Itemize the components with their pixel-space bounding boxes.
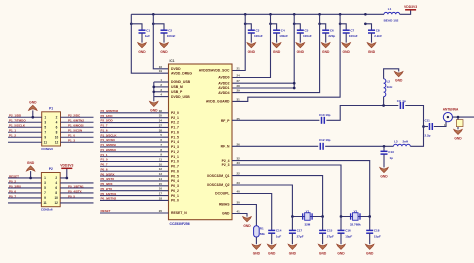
svg-text:AVDD1: AVDD1 <box>218 86 229 90</box>
svg-text:4: 4 <box>55 181 57 185</box>
svg-text:2.2nF: 2.2nF <box>374 34 382 38</box>
svg-text:P1_5/SCLK: P1_5/SCLK <box>9 124 26 128</box>
svg-text:AVDD_DREG: AVDD_DREG <box>171 71 192 75</box>
svg-text:C1: C1 <box>146 28 150 32</box>
svg-text:GND: GND <box>366 251 374 255</box>
svg-text:27pF: 27pF <box>327 234 334 238</box>
svg-text:P0_3: P0_3 <box>171 184 179 188</box>
svg-text:5: 5 <box>44 186 46 190</box>
svg-text:8: 8 <box>55 191 57 195</box>
svg-text:P1_5: P1_5 <box>171 135 179 139</box>
svg-text:C8: C8 <box>376 28 380 32</box>
svg-text:20: 20 <box>159 209 163 213</box>
svg-text:P2_1: P2_1 <box>171 116 179 120</box>
svg-text:9: 9 <box>44 135 46 139</box>
svg-text:P0_6: P0_6 <box>171 169 179 173</box>
svg-text:18: 18 <box>159 196 163 200</box>
svg-text:USB_M: USB_M <box>171 85 183 89</box>
svg-text:GND: GND <box>297 50 305 54</box>
svg-text:6: 6 <box>56 125 58 129</box>
svg-text:Y1: Y1 <box>306 209 310 213</box>
svg-text:1uF: 1uF <box>145 34 151 38</box>
svg-text:P1_2: P1_2 <box>171 150 179 154</box>
svg-text:C16: C16 <box>345 229 351 233</box>
svg-text:L3: L3 <box>394 140 398 144</box>
svg-text:2: 2 <box>56 115 58 119</box>
svg-text:P1_2/MISO: P1_2/MISO <box>101 148 117 152</box>
svg-text:1uF: 1uF <box>276 234 282 238</box>
svg-text:P1_2: P1_2 <box>9 134 16 138</box>
svg-text:P1_1: P1_1 <box>9 129 16 133</box>
svg-text:DCOUPL: DCOUPL <box>215 192 229 196</box>
svg-text:P0_4: P0_4 <box>171 179 179 183</box>
svg-text:26: 26 <box>237 142 241 146</box>
svg-text:8: 8 <box>56 130 58 134</box>
svg-text:P1_6: P1_6 <box>101 128 108 132</box>
svg-text:P0_7: P0_7 <box>171 165 179 169</box>
svg-text:P0_2/TX: P0_2/TX <box>101 187 113 191</box>
svg-text:100nF: 100nF <box>349 34 358 38</box>
svg-text:GND: GND <box>150 109 158 113</box>
svg-text:24: 24 <box>237 74 241 78</box>
svg-text:36: 36 <box>159 109 163 113</box>
svg-text:P0_4/STX: P0_4/STX <box>101 177 115 181</box>
svg-text:P1_0: P1_0 <box>68 134 75 138</box>
svg-text:ANTENNA: ANTENNA <box>443 107 459 111</box>
svg-text:P1: P1 <box>49 106 53 110</box>
svg-text:USB_P: USB_P <box>171 90 183 94</box>
svg-text:VDD3V3: VDD3V3 <box>404 5 417 9</box>
svg-text:C7: C7 <box>350 28 354 32</box>
svg-text:DVDD: DVDD <box>171 67 181 71</box>
svg-text:GND: GND <box>248 50 256 54</box>
svg-text:Y2: Y2 <box>353 209 357 213</box>
svg-text:AVDD0: AVDD0 <box>218 76 229 80</box>
svg-text:CON2x6: CON2x6 <box>41 208 53 212</box>
svg-text:CC2530F256: CC2530F256 <box>170 222 190 226</box>
svg-text:3: 3 <box>44 120 46 124</box>
svg-text:12: 12 <box>159 167 163 171</box>
svg-text:100nF: 100nF <box>279 34 288 38</box>
svg-text:23: 23 <box>237 181 241 185</box>
svg-text:C13: C13 <box>388 150 394 154</box>
svg-text:7: 7 <box>44 130 46 134</box>
svg-text:13: 13 <box>159 172 163 176</box>
svg-text:P1_4/CSN: P1_4/CSN <box>101 138 115 142</box>
svg-text:RESET_N: RESET_N <box>171 211 187 215</box>
svg-text:P0_6: P0_6 <box>9 189 16 193</box>
svg-text:C12 10p: C12 10p <box>319 138 331 142</box>
svg-text:GND: GND <box>454 137 462 141</box>
svg-text:P0_5/SRX: P0_5/SRX <box>101 172 115 176</box>
svg-text:CON2x6: CON2x6 <box>41 147 53 151</box>
svg-text:P1_5/CSN: P1_5/CSN <box>68 129 82 133</box>
svg-text:22: 22 <box>237 172 241 176</box>
svg-text:P1_3/MOSI: P1_3/MOSI <box>101 143 117 147</box>
svg-text:P0_0/BTN2: P0_0/BTN2 <box>101 197 117 201</box>
svg-text:32.768k: 32.768k <box>350 223 361 227</box>
svg-text:31: 31 <box>237 97 241 101</box>
svg-text:P0_1/BTN1: P0_1/BTN1 <box>101 192 117 196</box>
svg-text:P2_3: P2_3 <box>222 163 230 167</box>
svg-text:GND: GND <box>368 50 376 54</box>
svg-text:GND: GND <box>289 251 297 255</box>
svg-text:P1_1: P1_1 <box>171 155 179 159</box>
svg-text:1p: 1p <box>390 156 394 160</box>
svg-text:220p: 220p <box>328 34 335 38</box>
svg-text:38: 38 <box>159 128 163 132</box>
svg-text:11: 11 <box>159 158 162 162</box>
svg-text:P2_2/DD: P2_2/DD <box>101 119 114 123</box>
svg-text:P0_5: P0_5 <box>68 194 75 198</box>
svg-text:P1_7: P1_7 <box>101 124 108 128</box>
svg-text:P0_2: P0_2 <box>171 189 179 193</box>
svg-text:R1: R1 <box>260 226 264 230</box>
svg-text:4: 4 <box>56 120 58 124</box>
svg-text:2nH: 2nH <box>387 85 393 89</box>
svg-text:2.2p: 2.2p <box>425 134 431 138</box>
svg-text:17: 17 <box>159 192 163 196</box>
svg-text:34: 34 <box>159 119 163 123</box>
svg-text:GND: GND <box>29 100 37 104</box>
svg-text:P0_2: P0_2 <box>9 179 16 183</box>
svg-text:P0_6: P0_6 <box>101 167 108 171</box>
svg-text:GND: GND <box>273 50 281 54</box>
svg-text:P2_1/DD: P2_1/DD <box>9 114 22 118</box>
svg-text:L1: L1 <box>388 7 392 11</box>
svg-text:10: 10 <box>54 196 58 200</box>
svg-text:28: 28 <box>237 84 241 88</box>
svg-text:19: 19 <box>159 69 163 73</box>
svg-text:RF_N: RF_N <box>221 145 230 149</box>
svg-text:BEAD 102: BEAD 102 <box>384 19 399 23</box>
svg-text:P1_0: P1_0 <box>101 158 108 162</box>
svg-text:P0_7: P0_7 <box>101 163 108 167</box>
svg-text:IC1: IC1 <box>170 59 175 63</box>
svg-text:C15: C15 <box>327 229 333 233</box>
svg-text:RF_P: RF_P <box>221 119 230 123</box>
svg-text:32: 32 <box>237 157 241 161</box>
svg-text:P2_2: P2_2 <box>171 121 179 125</box>
svg-text:P1_4: P1_4 <box>171 140 179 144</box>
svg-text:GND: GND <box>322 50 330 54</box>
svg-text:14: 14 <box>159 177 163 181</box>
svg-text:XOSC32M_Q2: XOSC32M_Q2 <box>207 183 230 187</box>
svg-text:6: 6 <box>55 186 57 190</box>
svg-text:15pF: 15pF <box>345 234 352 238</box>
svg-text:P2_0: P2_0 <box>171 111 179 115</box>
svg-text:P1_7: P1_7 <box>171 126 179 130</box>
svg-text:P2: P2 <box>49 167 53 171</box>
svg-text:C2: C2 <box>168 28 172 32</box>
svg-text:30: 30 <box>237 201 241 205</box>
svg-text:P2_2/DC: P2_2/DC <box>68 114 81 118</box>
svg-text:GND: GND <box>395 79 403 83</box>
svg-text:GND: GND <box>138 50 146 54</box>
svg-text:GND: GND <box>243 224 251 228</box>
svg-text:GND: GND <box>253 251 261 255</box>
svg-text:P0_1/BTN1: P0_1/BTN1 <box>68 184 84 188</box>
svg-text:2nH: 2nH <box>403 140 409 144</box>
svg-text:C17: C17 <box>297 229 303 233</box>
svg-text:AVDD5/AVDD_SOC: AVDD5/AVDD_SOC <box>199 69 230 73</box>
svg-text:P1_0: P1_0 <box>171 160 179 164</box>
svg-text:P1_1: P1_1 <box>101 153 108 157</box>
svg-text:11: 11 <box>43 201 47 205</box>
svg-text:GND: GND <box>337 251 345 255</box>
svg-text:1: 1 <box>44 115 46 119</box>
svg-text:16: 16 <box>159 65 163 69</box>
svg-text:1: 1 <box>44 176 46 180</box>
svg-text:35: 35 <box>159 114 163 118</box>
svg-text:5: 5 <box>44 125 46 129</box>
svg-text:33: 33 <box>237 161 241 165</box>
svg-text:29: 29 <box>237 89 241 93</box>
svg-text:RBIAS: RBIAS <box>219 203 230 207</box>
svg-text:GND: GND <box>343 50 351 54</box>
svg-text:GND: GND <box>380 175 388 179</box>
svg-text:C18: C18 <box>374 229 380 233</box>
svg-text:XOSC32M_Q1: XOSC32M_Q1 <box>207 174 230 178</box>
svg-text:C3: C3 <box>256 28 260 32</box>
svg-text:GND: GND <box>222 212 230 216</box>
svg-text:41: 41 <box>237 210 241 214</box>
svg-text:21: 21 <box>237 67 241 71</box>
svg-text:AVDD4: AVDD4 <box>218 91 229 95</box>
svg-text:P2_0/6MTN2: P2_0/6MTN2 <box>101 109 119 113</box>
svg-text:L2: L2 <box>387 80 391 84</box>
svg-text:16: 16 <box>159 187 163 191</box>
svg-text:GND: GND <box>160 50 168 54</box>
svg-text:40: 40 <box>237 190 241 194</box>
svg-text:DVDD_USB: DVDD_USB <box>171 95 190 99</box>
svg-text:P1_3: P1_3 <box>68 139 75 143</box>
svg-text:C10 10p: C10 10p <box>319 113 331 117</box>
svg-text:DGND_USB: DGND_USB <box>171 80 191 84</box>
svg-text:100nF: 100nF <box>167 34 176 38</box>
svg-text:3: 3 <box>44 181 46 185</box>
svg-text:P1_5/SCLK: P1_5/SCLK <box>101 133 118 137</box>
svg-text:9: 9 <box>44 196 46 200</box>
svg-text:56k: 56k <box>260 232 265 236</box>
svg-text:100nF: 100nF <box>254 34 263 38</box>
svg-text:P2_4: P2_4 <box>222 159 230 163</box>
svg-text:15: 15 <box>159 182 163 186</box>
svg-text:P0_3/RX: P0_3/RX <box>9 184 21 188</box>
svg-text:GND: GND <box>27 161 35 165</box>
svg-text:AVDD_GUARD: AVDD_GUARD <box>206 100 230 104</box>
svg-text:27pF: 27pF <box>297 234 304 238</box>
svg-text:P1_6/MTN2: P1_6/MTN2 <box>68 119 84 123</box>
svg-text:11: 11 <box>44 140 48 144</box>
svg-text:10: 10 <box>159 162 163 166</box>
svg-text:GND: GND <box>319 251 327 255</box>
svg-text:P1_3: P1_3 <box>171 145 179 149</box>
svg-text:12: 12 <box>54 201 58 205</box>
svg-text:C4: C4 <box>281 28 285 32</box>
svg-text:P0_5: P0_5 <box>171 174 179 178</box>
svg-text:32M: 32M <box>304 223 310 227</box>
svg-text:P0_1: P0_1 <box>171 194 179 198</box>
svg-text:P1_7/TMDO: P1_7/TMDO <box>9 119 26 123</box>
svg-text:P0_3/RX: P0_3/RX <box>101 182 113 186</box>
svg-text:P0_7: P0_7 <box>9 194 16 198</box>
svg-text:P1_6/MOSI: P1_6/MOSI <box>68 124 84 128</box>
svg-text:27: 27 <box>237 79 241 83</box>
svg-text:C14: C14 <box>276 229 282 233</box>
svg-text:7: 7 <box>44 191 46 195</box>
svg-text:10: 10 <box>55 135 59 139</box>
svg-text:GND: GND <box>268 251 276 255</box>
svg-text:15pF: 15pF <box>374 234 381 238</box>
svg-text:C11: C11 <box>425 119 431 123</box>
svg-text:RESET: RESET <box>9 174 19 178</box>
svg-text:C9 1p: C9 1p <box>397 99 406 103</box>
svg-text:100nF: 100nF <box>303 34 312 38</box>
svg-text:37: 37 <box>159 123 163 127</box>
svg-text:AVDD2: AVDD2 <box>218 81 229 85</box>
svg-text:2: 2 <box>55 176 57 180</box>
svg-text:RESET: RESET <box>101 209 111 213</box>
svg-text:C5: C5 <box>305 28 309 32</box>
svg-text:P2_1/DC: P2_1/DC <box>101 114 114 118</box>
svg-text:P0_0: P0_0 <box>171 199 179 203</box>
svg-text:C6: C6 <box>330 28 334 32</box>
svg-text:VDD3V3: VDD3V3 <box>60 163 73 167</box>
svg-text:12: 12 <box>55 140 59 144</box>
svg-text:P1_6: P1_6 <box>171 130 179 134</box>
svg-text:P0_4/STX: P0_4/STX <box>68 189 82 193</box>
